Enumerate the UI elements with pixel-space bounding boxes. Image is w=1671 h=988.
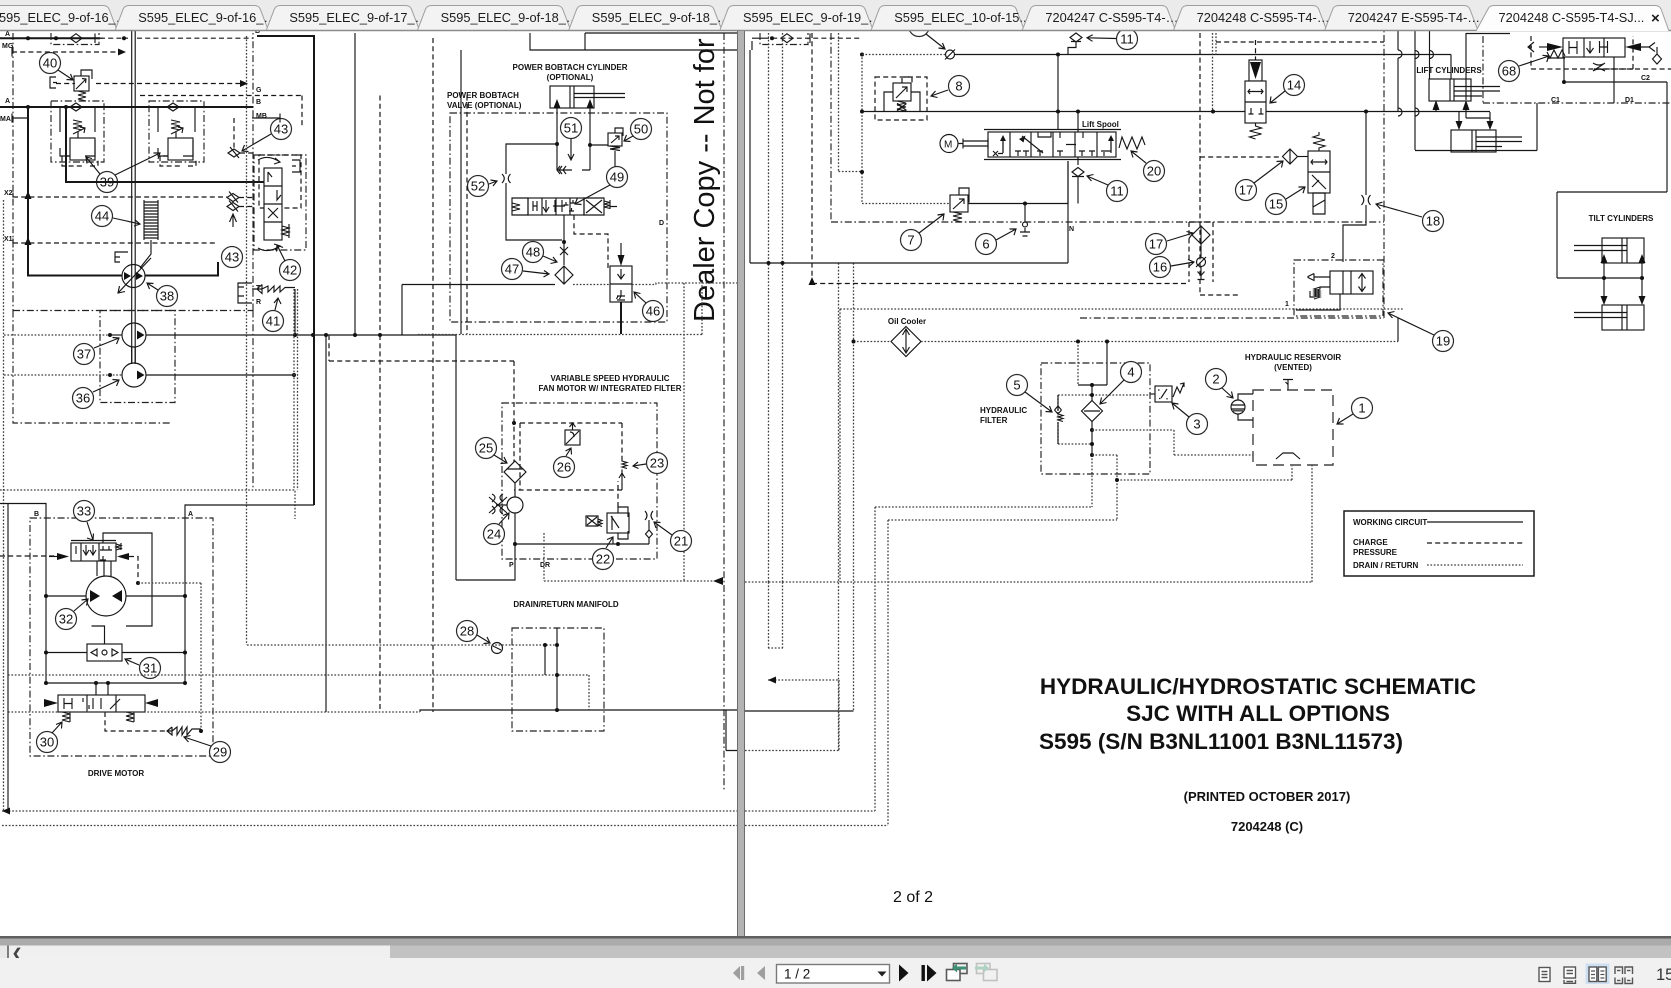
- valve 19 port1: [1296, 294, 1340, 310]
- svg-text:DR: DR: [540, 562, 550, 569]
- dotted y172: [839, 171, 863, 173]
- top wire B right: [752, 37, 764, 39]
- cyl2 port arrows: [1456, 121, 1494, 130]
- svg-text:37: 37: [77, 347, 91, 362]
- svg-text:31: 31: [143, 661, 157, 676]
- node on A at x28: [26, 36, 30, 40]
- spool return: [1067, 161, 1069, 204]
- balloon 28 arrow: [477, 635, 490, 644]
- tilt cylinder 2: [1574, 305, 1644, 330]
- valve 15 body: [1308, 151, 1330, 193]
- wire 11b down: [1077, 177, 1079, 204]
- cooler right wire: [921, 342, 1398, 386]
- check 11a jog: [1068, 42, 1076, 55]
- svg-text:26: 26: [557, 460, 571, 475]
- reservoir baffle: [1276, 453, 1300, 459]
- manifold box: [512, 628, 604, 731]
- balloon 40 arrow: [58, 70, 73, 80]
- valve 33 right arrow: [117, 553, 129, 560]
- filter feed U: [1078, 342, 1107, 386]
- balloon 17a arrow: [1254, 161, 1283, 183]
- node fan feed: [512, 421, 516, 425]
- lift spool body: [984, 130, 1121, 160]
- wire G dashed: [140, 96, 302, 129]
- valve 46: [610, 266, 632, 302]
- svg-text:1: 1: [1358, 401, 1365, 416]
- svg-text:S595_ELEC_9-of-19_…: S595_ELEC_9-of-19_…: [743, 10, 881, 25]
- svg-text:S595_ELEC_10-of-15...: S595_ELEC_10-of-15...: [894, 10, 1030, 25]
- svg-text:15: 15: [1269, 197, 1283, 212]
- pump 38 tank bracket: [115, 252, 128, 262]
- drive motor dash-dot box: [30, 518, 213, 756]
- svg-text:X1: X1: [4, 236, 13, 243]
- svg-text:49: 49: [610, 170, 624, 185]
- balloon 23: [647, 453, 668, 474]
- valve 8 spring: [897, 101, 906, 111]
- valve 68 check right: [1653, 47, 1662, 64]
- check spring 29: [167, 727, 201, 735]
- staircase y811: [745, 507, 875, 811]
- svg-text:47: 47: [505, 262, 519, 277]
- balloon 43a arrow: [242, 134, 271, 152]
- valve 33 left arrow: [57, 553, 69, 560]
- balloon 9 partial: [909, 16, 930, 37]
- breather 2 lines: [1232, 405, 1245, 411]
- wire B drive motor feed: [0, 504, 46, 684]
- wire pump36 right: [146, 374, 294, 376]
- tilt cyl1 arrows: [1601, 254, 1646, 263]
- svg-text:SJC WITH ALL OPTIONS: SJC WITH ALL OPTIONS: [1126, 701, 1390, 726]
- staircase y750: [745, 680, 839, 751]
- svg-text:40: 40: [43, 56, 57, 71]
- vertical x355: [354, 33, 356, 335]
- top wire to valve68: [1466, 33, 1510, 35]
- svg-text:15: 15: [1656, 966, 1671, 984]
- valve 68 left arrow2: [1528, 42, 1534, 52]
- check diamond top: [781, 34, 793, 43]
- balloon 68 arrow: [1519, 55, 1549, 66]
- balloon 31: [140, 658, 161, 679]
- mid drain bus y645: [247, 644, 557, 646]
- manifold nodes: [555, 643, 559, 647]
- balloon 2 arrow: [1222, 388, 1233, 398]
- page layout icon: two-page continuous: [1615, 967, 1633, 984]
- balloon 17b: [1146, 234, 1167, 255]
- node 31 left: [44, 651, 48, 655]
- svg-text:S595 (S/N B3NL11001 B3NL11573): S595 (S/N B3NL11001 B3NL11573): [1039, 729, 1403, 754]
- cooler left wire: [854, 341, 892, 343]
- wire y150: [1415, 150, 1537, 152]
- valve 33 pilot dashed: [129, 557, 138, 581]
- valve 68 left arrow: [1547, 43, 1563, 51]
- svg-text:32: 32: [59, 612, 73, 627]
- filter out: [1091, 422, 1093, 456]
- svg-text:42: 42: [283, 263, 297, 278]
- wire B long vertical: [257, 36, 314, 505]
- servo piston 44 spring stack: [140, 200, 158, 268]
- oil cooler diamond: [891, 327, 921, 357]
- valve 31 row wire: [46, 652, 185, 654]
- node valve22: [616, 542, 620, 546]
- balloon 49: [607, 167, 628, 188]
- filter stem: [1091, 385, 1093, 401]
- svg-text:11: 11: [1120, 32, 1134, 47]
- balloon 29: [210, 742, 231, 763]
- wire y54 solid: [955, 54, 1384, 56]
- valve 49 X block right: [584, 198, 604, 215]
- svg-text:1 / 2: 1 / 2: [784, 967, 810, 982]
- tilt feed box: [1557, 277, 1642, 279]
- check 9: [946, 50, 955, 59]
- 39a relief body: [70, 138, 95, 160]
- balloon 21: [671, 531, 692, 552]
- wire 7 left dotted: [862, 203, 950, 205]
- node 862/172: [860, 170, 864, 174]
- valve 33 left stub: [49, 556, 57, 558]
- filter 17a diamond: [1283, 149, 1298, 164]
- MG arrow junction: [118, 49, 126, 56]
- svg-text:P: P: [509, 562, 514, 569]
- svg-text:19: 19: [1436, 334, 1450, 349]
- node A2 x28: [26, 105, 30, 109]
- pump 36 triangle: [137, 371, 145, 380]
- svg-text:DRAIN / RETURN: DRAIN / RETURN: [1353, 561, 1419, 570]
- node y710 x557: [555, 708, 559, 712]
- svg-text:25: 25: [479, 441, 493, 456]
- charge dashed into valve33: [0, 555, 57, 557]
- dashed y157: [1200, 156, 1282, 158]
- valve 30 right arrow: [145, 699, 158, 707]
- node P: [513, 542, 517, 546]
- left edge vertical: [7, 504, 9, 812]
- bottom drain bus y712: [8, 711, 420, 713]
- balloon 16: [1150, 257, 1171, 278]
- balloon 49 arrow: [575, 185, 610, 205]
- valve 14 stem dash: [1255, 40, 1257, 60]
- balloon 4 arrow: [1100, 380, 1124, 404]
- svg-text:CHARGE: CHARGE: [1353, 538, 1388, 547]
- svg-text:M: M: [944, 140, 952, 151]
- svg-text:(VENTED): (VENTED): [1274, 363, 1312, 372]
- balloon 50: [631, 119, 652, 140]
- svg-text:7204248 (C): 7204248 (C): [1231, 819, 1303, 834]
- fan propeller: [489, 494, 507, 514]
- balloon 51 arrow: [568, 139, 574, 160]
- spool feed left: [1057, 55, 1059, 131]
- svg-text:7204247 C-S595-T4-…: 7204247 C-S595-T4-…: [1045, 10, 1178, 25]
- svg-text:2 of 2: 2 of 2: [893, 889, 933, 906]
- balloon 15: [1266, 194, 1287, 215]
- svg-text:22: 22: [596, 552, 610, 567]
- hop arcs y54: [1398, 50, 1434, 116]
- valve49 down port: [563, 215, 565, 242]
- return y520: [888, 480, 1117, 520]
- page layout icon: continuous: [1564, 967, 1576, 983]
- fan wire: [496, 483, 515, 505]
- valve 42 E bracket: [292, 160, 300, 172]
- charge dash x380 long vertical: [379, 96, 381, 713]
- fan bottom wire: [515, 538, 649, 544]
- balloon 26: [554, 457, 575, 478]
- svg-text:S595_ELEC_9-of-18_…: S595_ELEC_9-of-18_…: [441, 10, 579, 25]
- check 11a: [1070, 33, 1082, 42]
- fan feed dashed vertical: [513, 361, 515, 462]
- balloon 47 arrow: [523, 271, 549, 278]
- balloon 37 arrow: [94, 338, 119, 349]
- filter diamond 4: [1082, 401, 1103, 422]
- wire C2: [1557, 57, 1667, 278]
- reservoir cap: [1283, 380, 1293, 390]
- node right: [588, 143, 592, 147]
- balloon 25: [476, 438, 497, 459]
- bottom row wire: [46, 682, 185, 684]
- cooler box top: [840, 309, 1403, 582]
- pump 36: [122, 363, 146, 387]
- breather 2 wires: [1238, 394, 1253, 420]
- valve 41 check spring: [252, 285, 295, 294]
- cyl1 right port wire: [1465, 33, 1467, 118]
- valve 46 top stub: [620, 243, 622, 255]
- valve 30 body: [58, 695, 145, 712]
- y811 left arrow: [2, 808, 10, 815]
- balloon 44 arrow: [113, 218, 140, 226]
- balloon 41: [263, 311, 284, 332]
- reservoir drain bus: [745, 465, 1312, 582]
- node pilot: [136, 581, 140, 585]
- svg-text:4: 4: [1127, 365, 1134, 380]
- svg-text:36: 36: [76, 391, 90, 406]
- balloon 25 arrow: [494, 455, 507, 464]
- valve 42 spring: [282, 224, 289, 238]
- valve 68 right arrow: [1625, 43, 1641, 51]
- top wire dashed: [764, 37, 860, 39]
- pump 38 variable: [122, 265, 145, 288]
- wire y111: [862, 111, 1384, 113]
- valve 41 tank bracket: [238, 283, 252, 303]
- node 1058/54: [1056, 53, 1060, 57]
- motor 32 triangles: [90, 590, 122, 602]
- nodes on y334.5: [293, 333, 297, 337]
- gauge 28 circle: [492, 643, 503, 654]
- svg-text:51: 51: [564, 121, 578, 136]
- 39b spring arrows: [171, 120, 183, 138]
- gauge 26 internals: [566, 423, 579, 444]
- valve 30 spring left: [62, 712, 70, 722]
- svg-text:52: 52: [471, 179, 485, 194]
- balloon 33: [74, 501, 95, 522]
- spool motor M: [940, 135, 958, 153]
- DR dotted down: [543, 533, 545, 581]
- svg-text:2: 2: [1212, 372, 1219, 387]
- cyl1 port arrows: [1433, 100, 1470, 110]
- valve 68 left wire: [1539, 46, 1547, 48]
- filter diamond 25: [504, 461, 526, 483]
- fan inner dashed box: [520, 423, 622, 490]
- cyl to valve wires: [557, 108, 590, 170]
- valve 14 body: [1245, 81, 1266, 123]
- svg-text:PRESSURE: PRESSURE: [1353, 548, 1398, 557]
- active tab: [1476, 6, 1669, 32]
- svg-text:24: 24: [487, 527, 501, 542]
- pump 38 flow triangles: [124, 272, 143, 280]
- wire cyl2 rod side: [1536, 103, 1538, 151]
- mid drain bus y675: [8, 674, 589, 676]
- node cooler 1078: [1076, 340, 1080, 344]
- wire 47 to 46 dotted: [573, 284, 610, 286]
- 43a dashed stub: [234, 118, 254, 153]
- valve 42 prop arrows: [258, 157, 280, 250]
- node 31 right: [183, 651, 187, 655]
- drain arrow at divider: [713, 577, 723, 585]
- dash-dot x253 lower: [252, 311, 254, 491]
- drain x247 vertical: [246, 36, 248, 645]
- svg-text:43: 43: [225, 250, 239, 265]
- balloon 46 arrow: [634, 292, 646, 303]
- wire A top dashed continuation: [100, 37, 253, 39]
- check diamond 43a: [228, 147, 240, 158]
- MB tick: [252, 114, 280, 123]
- balloon 11a: [1117, 29, 1138, 50]
- 39a spring arrows: [73, 120, 85, 138]
- return lower: [1092, 455, 1292, 480]
- balloon 11b: [1107, 181, 1128, 202]
- page layout icon: single page: [1539, 968, 1550, 982]
- svg-text:POWER BOBTACH: POWER BOBTACH: [447, 91, 519, 100]
- wire pump37 left: [110, 334, 122, 336]
- balloon 20: [1144, 161, 1165, 182]
- balloon 14 arrow: [1270, 91, 1285, 103]
- bypass 5: [1055, 395, 1064, 444]
- valve49 D-port dashed: [574, 215, 608, 268]
- valve 7 pilot: [959, 188, 969, 202]
- node left: [555, 142, 559, 146]
- svg-text:LIFT CYLINDERS: LIFT CYLINDERS: [1416, 66, 1482, 75]
- bottom drain y825: [2, 825, 737, 827]
- valve 19 box: [1294, 260, 1383, 316]
- fan dash-dot box: [502, 403, 657, 559]
- pump shaft double line: [132, 31, 136, 364]
- orifice 52: [502, 174, 511, 183]
- balloon 37: [74, 344, 95, 365]
- svg-text:7: 7: [907, 233, 914, 248]
- R40 spring: [78, 91, 86, 101]
- valve 68 body: [1563, 38, 1625, 57]
- node 1092/395: [1090, 393, 1094, 397]
- balloon 11b arrow: [1087, 175, 1108, 186]
- main drain to divider: [544, 580, 714, 582]
- valve 19 handle: [1308, 274, 1330, 288]
- valve 15 plunger: [1313, 193, 1325, 214]
- balloon 31 arrow: [125, 659, 139, 666]
- dashed x1200: [1200, 33, 1384, 295]
- switch 3 squiggle: [1173, 383, 1184, 397]
- balloon 42: [280, 260, 301, 281]
- node x110 y335: [108, 333, 112, 337]
- page layout icon: two-page (active): [1586, 964, 1610, 985]
- balloon 39 arrows: [86, 153, 160, 175]
- node on A at x56: [54, 36, 58, 40]
- valve 68 orifice: [1594, 68, 1671, 70]
- node 862/54: [860, 53, 864, 57]
- svg-text:A: A: [188, 511, 193, 518]
- filter 17b box: [1189, 222, 1213, 282]
- svg-text:B: B: [34, 511, 39, 518]
- svg-text:×: ×: [1651, 10, 1660, 27]
- balloon 19 arrow: [1388, 312, 1434, 336]
- wire y334.5 main: [146, 334, 456, 336]
- balloon 6 arrow: [996, 229, 1016, 240]
- relief 50: [608, 128, 623, 157]
- valve 22: [607, 507, 629, 539]
- drain pair x1212: [1213, 33, 1217, 112]
- balloon 3: [1187, 414, 1208, 435]
- valve 30 spring right: [126, 712, 134, 722]
- valve 68 dashed box: [1531, 36, 1633, 69]
- 39a drain dash: [62, 156, 98, 166]
- orifice 18: [1362, 195, 1371, 205]
- balloon 52 arrow: [489, 180, 497, 186]
- filter inner dotted box: [1058, 395, 1150, 444]
- dash-dot x724: [723, 33, 725, 790]
- balloon 39: [97, 172, 118, 193]
- balloon 38 arrow: [147, 283, 158, 290]
- wire pump38 right to v41: [145, 262, 218, 276]
- valve22 pilot dashed: [514, 481, 622, 507]
- drain 6: [1020, 204, 1030, 237]
- svg-text:48: 48: [526, 245, 540, 260]
- svg-text:16: 16: [1153, 260, 1167, 275]
- valve 30 pilot dashed: [105, 712, 172, 731]
- svg-text:50: 50: [634, 122, 648, 137]
- cyl2 port stubs: [1459, 112, 1490, 121]
- valve 33 ports down: [97, 561, 111, 576]
- wire y118: [1466, 118, 1490, 120]
- MG tick: [11, 48, 13, 57]
- feed verticals: [1398, 25, 1430, 150]
- staircase y825: [745, 520, 888, 826]
- wire X1 dashed: [13, 239, 216, 248]
- svg-text:Oil Cooler: Oil Cooler: [888, 317, 926, 326]
- balloon 18: [1423, 211, 1444, 232]
- page edge wire: [750, 41, 752, 263]
- balloon 17b arrow: [1167, 232, 1193, 242]
- nodes bottom row: [44, 681, 48, 685]
- X2 arrow node: [25, 191, 32, 199]
- valve 14 solenoid: [1249, 60, 1262, 81]
- node 862/113: [860, 110, 864, 114]
- svg-text:HYDRAULIC/HYDROSTATIC SCHEMATI: HYDRAULIC/HYDROSTATIC SCHEMATIC: [1040, 674, 1476, 699]
- balloon 32: [56, 609, 77, 630]
- svg-text:29: 29: [213, 745, 227, 760]
- valve 68 spring: [1547, 50, 1565, 58]
- balloon 48 arrow: [543, 256, 557, 264]
- nodes filter out: [1090, 428, 1094, 432]
- svg-text:S595_ELEC_9-of-18_…: S595_ELEC_9-of-18_…: [592, 10, 730, 25]
- 39b internal wires: [158, 107, 195, 156]
- balloon 19: [1433, 331, 1454, 352]
- valve 42 box: [254, 155, 306, 250]
- cylinder port arrows: [554, 99, 594, 108]
- first page button (disabled): [733, 966, 744, 980]
- svg-text:A: A: [5, 98, 10, 105]
- balloon 50 arrow: [624, 135, 633, 142]
- wire 18 down: [1343, 205, 1366, 262]
- wire D1 down: [1613, 57, 1615, 103]
- tilt nodes: [1602, 276, 1606, 280]
- switch 3 wire: [1150, 393, 1155, 395]
- balloon 30: [37, 732, 58, 753]
- jog x726: [726, 710, 737, 751]
